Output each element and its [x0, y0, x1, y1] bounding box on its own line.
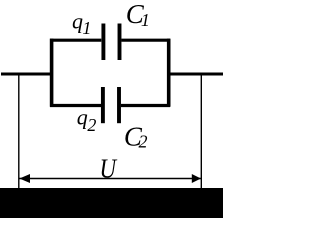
capacitor C1 left plate	[101, 24, 105, 61]
dimension extension line right	[200, 75, 202, 188]
dimension line for U	[20, 178, 201, 180]
capacitor C1 right plate	[118, 24, 122, 61]
wire: top branch right segment from C1	[122, 39, 171, 42]
svg-text:q: q	[72, 8, 83, 33]
wire: right lead out of parallel network	[167, 73, 223, 76]
capacitor C2 right plate	[117, 87, 121, 123]
arrowhead left	[19, 174, 30, 183]
capacitor C2 left plate	[101, 87, 105, 123]
node: left junction vertical bar	[50, 39, 54, 107]
bottom black strip	[0, 188, 223, 218]
wire: bottom branch right segment from C2	[121, 104, 170, 107]
svg-text:1: 1	[82, 18, 91, 38]
svg-text:1: 1	[141, 10, 150, 30]
svg-text:2: 2	[139, 132, 148, 152]
svg-text:2: 2	[87, 115, 96, 135]
dimension extension line left	[18, 75, 20, 188]
wire: left lead into parallel network	[1, 73, 53, 76]
arrowhead right	[192, 174, 201, 183]
svg-text:U: U	[100, 155, 118, 184]
wire: bottom branch left segment to C2	[50, 104, 101, 107]
svg-text:q: q	[77, 105, 88, 130]
wire: top branch left segment to C1	[50, 39, 101, 42]
node: right junction vertical bar	[167, 39, 171, 107]
